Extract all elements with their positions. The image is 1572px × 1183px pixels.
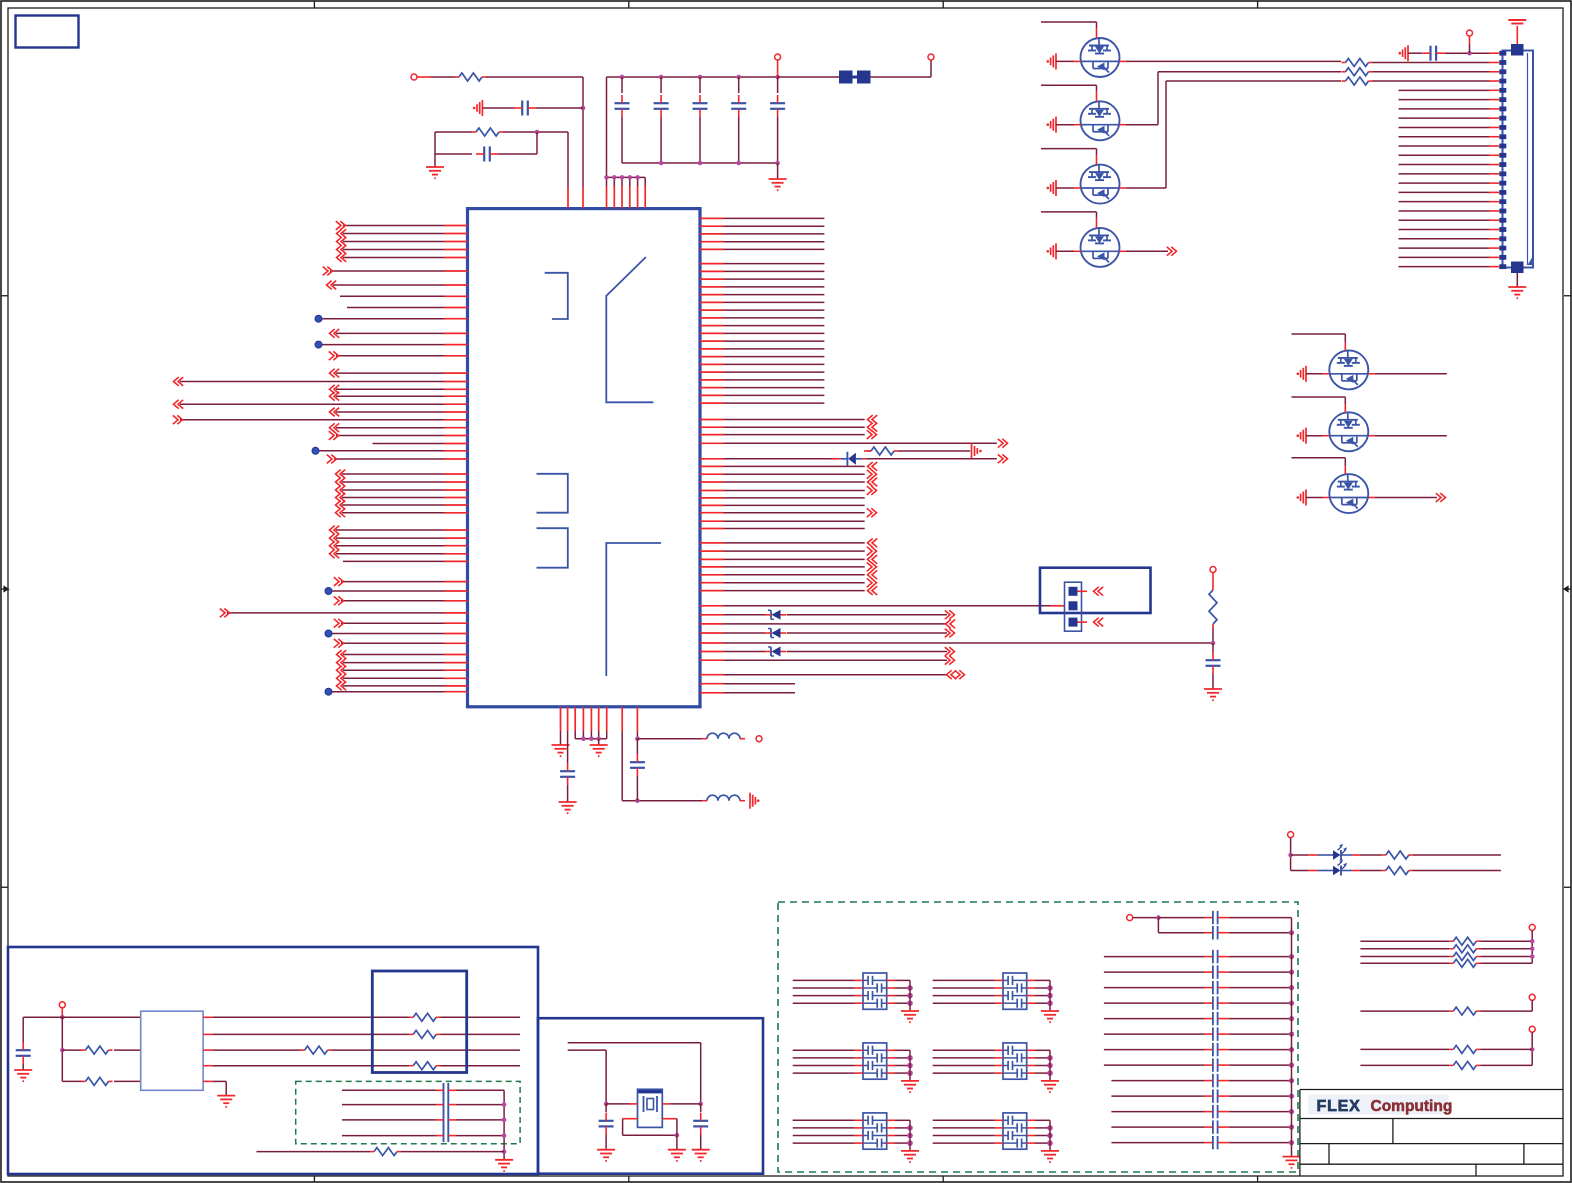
svg-text:FLEX: FLEX xyxy=(1317,1098,1361,1115)
svg-text:Computing: Computing xyxy=(1371,1098,1453,1115)
